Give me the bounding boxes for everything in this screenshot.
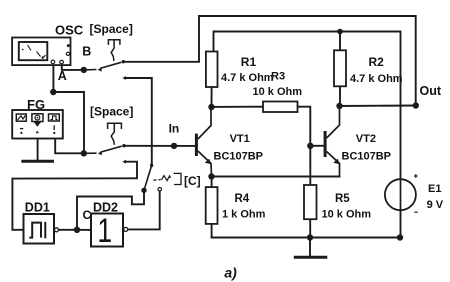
svg-text:[Space]: [Space]: [90, 105, 133, 119]
wire R2 top stub: [339, 32, 341, 51]
svg-text:4.7 k Ohm: 4.7 k Ohm: [350, 73, 403, 85]
junction VT1 collector: [208, 104, 214, 110]
wire VT2 collector to Out: [340, 105, 417, 108]
switch 3 pivot: [141, 188, 146, 193]
switch 2 lower contact hook: [122, 160, 126, 164]
wire R3 right to VT2 base node: [298, 107, 311, 146]
svg-text:10 k Ohm: 10 k Ohm: [322, 208, 372, 220]
svg-text:[C]: [C]: [184, 174, 201, 188]
junction VT2 collector: [336, 103, 342, 109]
svg-text:FG: FG: [27, 97, 45, 112]
svg-text:A: A: [58, 69, 67, 83]
wire OSC B terminal to switch common: [62, 64, 84, 70]
switch 1 (key Space) common and arm: [84, 62, 121, 71]
svg-text:10 k Ohm: 10 k Ohm: [253, 86, 303, 98]
svg-text:B: B: [82, 45, 91, 59]
wire DD1 output to junction: [59, 229, 77, 231]
svg-text:9 V: 9 V: [427, 199, 444, 211]
switch 1 key actuator [Space]: [108, 40, 120, 61]
svg-text:Out: Out: [420, 84, 442, 98]
switch 1 lower contact hook: [122, 76, 126, 80]
resistor R3: [263, 102, 298, 113]
svg-text:OSC: OSC: [55, 22, 84, 37]
wire VT2 base stub: [310, 145, 323, 147]
wire R4 top stub: [211, 177, 213, 188]
svg-text:E1: E1: [428, 183, 441, 195]
function generator FG: [12, 110, 63, 139]
wire DD2 output up to switch3 right contact: [128, 191, 160, 229]
DD2 output inverter circle: [124, 227, 128, 231]
switch 3 (key C): [150, 164, 153, 167]
junction DD1-DD2: [74, 227, 80, 233]
wire R4 bottom stub: [211, 224, 213, 238]
wire bottom rail: [212, 237, 400, 239]
wire FG middle terminal to ground: [37, 139, 39, 161]
wire junction to DD2 input: [77, 229, 91, 231]
resistor R2: [334, 50, 346, 86]
resistor R5: [304, 185, 317, 219]
DD1 output inverter circle: [55, 228, 59, 232]
svg-text:DD2: DD2: [93, 201, 118, 215]
battery E1: [385, 179, 416, 210]
resistor R1: [206, 52, 218, 88]
svg-text:VT1: VT1: [230, 133, 250, 145]
wire inner top rail R1 to E1: [214, 32, 401, 180]
switch 2 (key Space) common and arm: [84, 146, 122, 155]
wire VT2 base node down to R5: [309, 146, 311, 185]
wire outer top loop B-contact to Out: [123, 16, 415, 106]
wire switch1 lower contact to switch3 common (long vertical): [125, 78, 152, 164]
svg-text:VT2: VT2: [356, 133, 376, 145]
svg-text:R3: R3: [271, 71, 285, 83]
switch 3 right contact: [158, 188, 162, 192]
junction VT2 base: [307, 143, 313, 149]
wire emitter bus VT1 to VT2: [212, 176, 340, 178]
oscilloscope OSC: [12, 38, 70, 66]
svg-text:1 k Ohm: 1 k Ohm: [222, 208, 266, 220]
wire OSC A terminal down to node A: [52, 63, 54, 92]
switch 3 key actuator [C]: [154, 173, 182, 184]
node In: [171, 143, 177, 149]
switch 2 key actuator [Space]: [108, 123, 122, 145]
junction switch2 common: [81, 150, 87, 156]
svg-text:[Space]: [Space]: [90, 22, 133, 36]
wire switch2 lower contact loop to DD1 input: [12, 162, 137, 230]
svg-text:R5: R5: [335, 193, 350, 205]
node Out: [413, 102, 419, 108]
wire FG right terminal to node: [55, 139, 84, 154]
svg-text:BC107BP: BC107BP: [342, 150, 392, 162]
svg-text:R1: R1: [241, 55, 257, 69]
junction bottom rail E1: [397, 234, 403, 240]
transistor VT2: [324, 106, 340, 177]
resistor R4: [206, 187, 218, 224]
logic block DD2: [91, 214, 123, 247]
svg-text:DD1: DD1: [25, 201, 50, 215]
ground under R5: [294, 256, 328, 259]
transistor VT1: [195, 107, 212, 177]
svg-text:4.7 k Ohm: 4.7 k Ohm: [221, 72, 274, 84]
junction node A: [50, 89, 56, 95]
junction VT1 emitter: [208, 173, 214, 179]
svg-text:R4: R4: [235, 193, 250, 205]
wire R5 bottom stub: [309, 219, 311, 237]
wire junction riser to switch3 pivot: [77, 190, 144, 230]
wire E1 bottom to rail: [400, 210, 402, 237]
ground under FG: [21, 160, 54, 163]
wire R2 bottom stub: [339, 86, 341, 106]
wire node VT1-collector to R3 left: [212, 106, 264, 108]
wire In to VT1 base: [124, 145, 195, 147]
junction switch1 common: [81, 67, 87, 73]
logic block DD1: [24, 214, 55, 244]
svg-text:a): a): [224, 265, 237, 281]
wire R1 bottom stub: [211, 87, 213, 107]
wire node A to FG output node: [53, 92, 84, 153]
wire ground stub under R5: [309, 238, 311, 257]
svg-text:R2: R2: [369, 55, 385, 69]
junction top rail R2: [337, 29, 343, 35]
svg-text:C: C: [83, 208, 92, 222]
svg-text:BC107BP: BC107BP: [214, 150, 264, 162]
svg-text:1: 1: [97, 212, 112, 250]
junction bottom rail ground: [307, 234, 313, 240]
svg-text:In: In: [169, 122, 180, 136]
